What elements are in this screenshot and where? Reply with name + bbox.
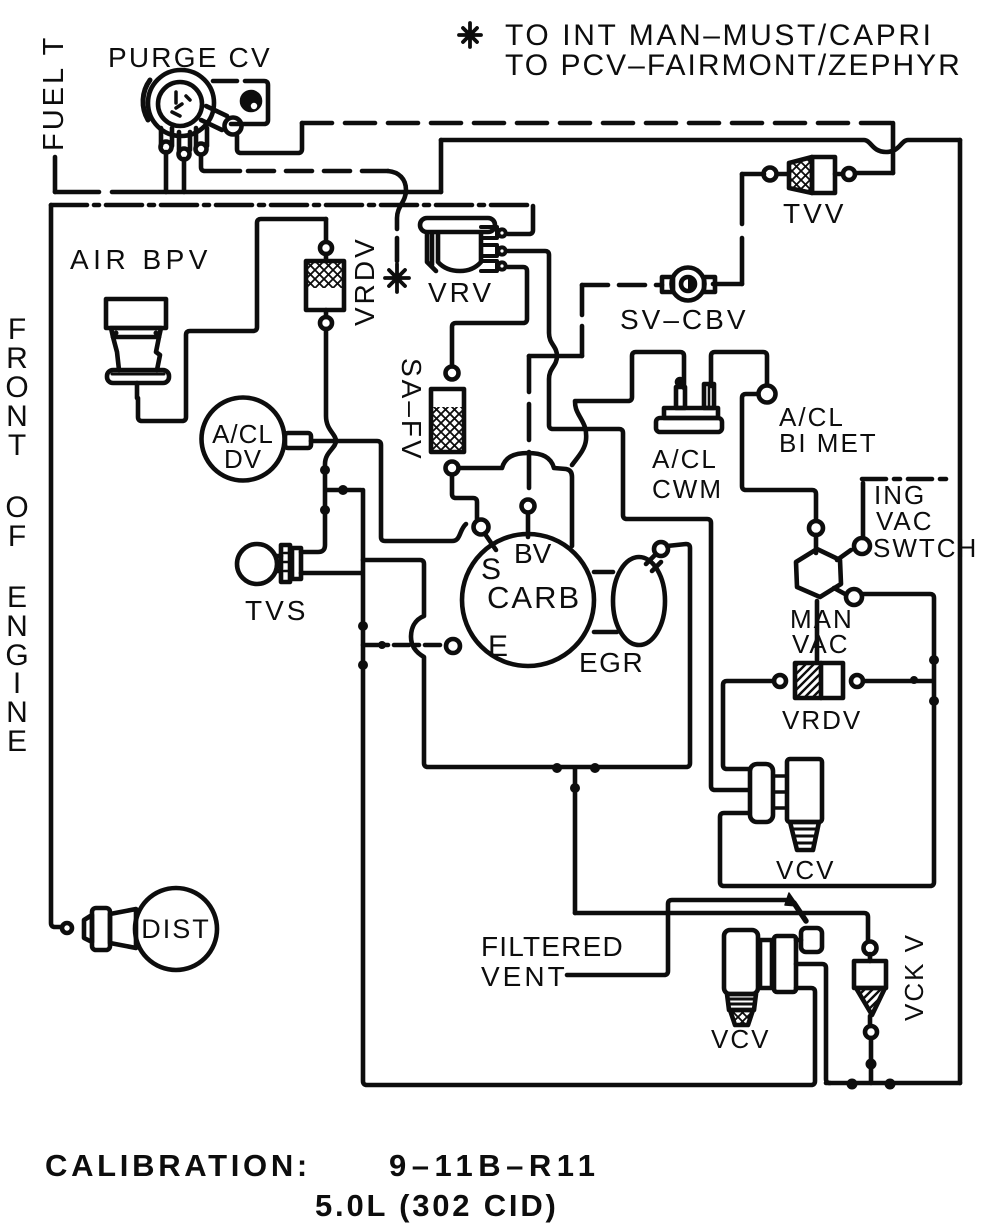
svg-text:E: E: [7, 725, 27, 758]
wire TVV right lead: [856, 171, 893, 176]
wire branch y490: [327, 488, 361, 493]
svg-text:VRDV: VRDV: [349, 236, 380, 326]
wire bottom bus right: [826, 1081, 960, 1086]
svg-text:TVV: TVV: [783, 198, 846, 229]
svg-text:VRDV: VRDV: [782, 705, 862, 735]
svg-text:VCV: VCV: [776, 855, 835, 885]
valve VRV: [420, 218, 506, 271]
wire CWM right prong up-over to BIMET circle: [711, 352, 767, 386]
check valve VCK V: [854, 961, 886, 1015]
valve A/CL DV: [202, 398, 312, 481]
wire solid top run y140 with hop: [441, 140, 960, 152]
switch MAN VAC hexagon: [796, 549, 841, 597]
wire vent run y913 to VCKV: [575, 913, 868, 941]
wire riser x441: [439, 140, 444, 192]
svg-text:DIST: DIST: [141, 914, 211, 944]
arrow annotation: [794, 903, 806, 921]
node S junction circle: [474, 520, 489, 535]
wire left border: [51, 205, 61, 927]
svg-text:TO INT MAN–MUST/CAPRI: TO INT MAN–MUST/CAPRI: [505, 19, 934, 52]
svg-text:CALIBRATION:: CALIBRATION:: [45, 1148, 311, 1183]
wire VRV top port to y205: [508, 206, 533, 234]
wire purge port1 drop: [164, 152, 169, 192]
wire E-line dashed: [363, 643, 445, 648]
wire A/CL DV out to drop x381: [311, 441, 466, 541]
wire AIR BPV to VRDV top (staircase): [138, 219, 326, 421]
wire TVV left lead: [742, 172, 764, 177]
wire main drop x363 with bottom run: [363, 490, 815, 1085]
wire SA-FV out right with arch over x529: [459, 453, 572, 546]
valve VRDV (upper): [306, 242, 344, 329]
distributor DIST: [84, 888, 217, 970]
svg-text:VCV: VCV: [711, 1024, 770, 1054]
wire jog y356: [529, 354, 582, 359]
svg-text:BV: BV: [514, 538, 552, 569]
wire right border: [958, 140, 963, 1083]
svg-text:FUEL T: FUEL T: [38, 35, 70, 151]
svg-text:SWTCH: SWTCH: [873, 533, 978, 563]
svg-text:VAC: VAC: [876, 506, 934, 536]
svg-text:A/CL: A/CL: [652, 444, 718, 474]
svg-text:VAC: VAC: [792, 629, 850, 659]
wire dash-dot header y205: [51, 203, 533, 208]
wire TVS bottom lead: [301, 571, 361, 576]
wire purge nozzle to dashed run: [237, 123, 302, 153]
wire dashed drop x529 to BV: [527, 356, 532, 499]
valve SA-FV: [431, 367, 464, 475]
valve VCV (upper): [750, 759, 822, 850]
wire VCKV stubs and drop: [868, 954, 873, 1026]
wire SWTCH circle drop: [861, 483, 866, 538]
svg-text:SA–FV: SA–FV: [396, 358, 427, 462]
node DIST inlet circle: [62, 923, 72, 933]
node E port circle: [446, 639, 460, 653]
node BV line circle: [522, 500, 535, 513]
svg-text:VRV: VRV: [428, 277, 494, 308]
wire hexagon top stub: [814, 535, 819, 553]
wire FILTERED VENT lead: [567, 900, 788, 975]
asterisk header: [459, 23, 481, 47]
node VCKV bottom circle: [865, 1026, 877, 1038]
purge valve PURGE CV: [143, 70, 268, 160]
wire SWTCH dashed lead: [862, 477, 950, 482]
svg-text:TO PCV–FAIRMONT/ZEPHYR: TO PCV–FAIRMONT/ZEPHYR: [505, 49, 962, 82]
node A/CL BIMET circle: [759, 386, 776, 403]
wire VCV2 right port down to bottom bus: [796, 964, 830, 1083]
wire SA-FV down to S-junction circle: [452, 475, 477, 519]
node MAN VAC right circle: [846, 589, 862, 605]
wire hexagon diag to right port: [834, 588, 845, 594]
svg-text:F: F: [8, 520, 26, 553]
wire S junction into carb: [485, 534, 496, 550]
svg-text:EGR: EGR: [579, 647, 644, 678]
label FRONT OF ENGINE: [5, 313, 28, 758]
svg-text:T: T: [8, 429, 26, 462]
motor A/CL CWM: [656, 379, 722, 432]
valve VCV (lower): [724, 928, 822, 1025]
purge bottom ports: [161, 128, 172, 146]
wire VCKV to bottom bus: [869, 1038, 874, 1083]
wire TVV drop x742 dashed: [740, 174, 745, 284]
valve AIR BPV: [106, 299, 169, 398]
wire VRV mid port long run to VCV: [508, 251, 749, 790]
svg-text:PURGE CV: PURGE CV: [108, 42, 272, 73]
wire SV-CBV left dashed: [582, 283, 662, 288]
svg-text:DV: DV: [224, 444, 262, 474]
purge mounting box: [213, 81, 268, 124]
node VCKV top circle: [864, 942, 877, 955]
wire BV stub into carb: [526, 513, 531, 537]
purge nozzle: [201, 106, 227, 130]
svg-text:BI MET: BI MET: [779, 428, 878, 458]
wire VRV bottom port to SA-FV: [452, 267, 527, 366]
wire hexagon bottom drop: [815, 601, 820, 660]
wire MAN VAC right loop around VCV box: [720, 594, 934, 886]
wire swoop up to CWM run: [572, 352, 684, 465]
svg-text:FILTERED: FILTERED: [481, 931, 624, 962]
wire hook down to asterisk: [388, 171, 406, 261]
wire VRDV down with jog to TVS: [301, 329, 336, 552]
wire purge port3 dashed to hook: [201, 155, 240, 171]
svg-text:E: E: [488, 630, 508, 663]
wire hexagon diag to SWTCH: [837, 550, 851, 560]
wire SV-CBV right lead: [713, 282, 742, 287]
svg-text:SV–CBV: SV–CBV: [620, 304, 749, 335]
asterisk mid: [385, 264, 409, 292]
wire FUEL T line: [53, 157, 58, 192]
valve SV-CBV: [662, 268, 715, 301]
wire TVV tap x893: [891, 123, 896, 173]
wire VRDV2 right lead: [863, 679, 932, 684]
wire purge port2 drop: [182, 159, 187, 192]
svg-text:VCK V: VCK V: [899, 933, 929, 1021]
wire BIMET down to hexagon feed: [742, 394, 816, 520]
svg-text:VENT: VENT: [481, 961, 568, 992]
wire VRDV top stub: [324, 219, 329, 241]
wire dashed top run y123: [302, 121, 893, 126]
svg-text:9–11B–R11: 9–11B–R11: [389, 1148, 601, 1183]
svg-text:5.0L (302 CID): 5.0L (302 CID): [315, 1188, 559, 1223]
wire main header y192: [55, 190, 441, 195]
wire drop x575 from EGR loop to vent run: [573, 768, 578, 913]
wire EGR loop left leg with hop over E-line: [363, 544, 690, 767]
svg-text:CWM: CWM: [652, 474, 723, 504]
svg-text:AIR BPV: AIR BPV: [70, 244, 212, 275]
node SWTCH circle: [854, 538, 870, 554]
svg-text:TVS: TVS: [245, 595, 308, 626]
valve EGR: [594, 542, 668, 645]
wire SV-CBV drop x582 dashed: [580, 285, 585, 356]
wire VRDV box stubs: [324, 254, 329, 317]
node hexagon top circle: [809, 521, 823, 535]
valve VRDV (lower): [774, 663, 863, 698]
wire VRDV2 left lead and drop: [723, 681, 774, 769]
switch TVS: [237, 544, 301, 584]
svg-text:CARB: CARB: [487, 580, 581, 615]
carburetor CARB: [462, 534, 594, 666]
valve TVV: [764, 157, 856, 193]
